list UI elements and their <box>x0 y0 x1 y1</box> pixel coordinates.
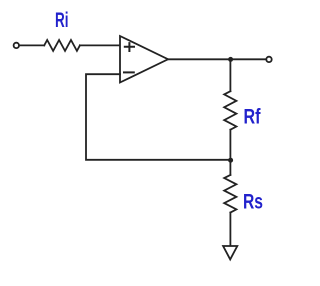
svg-text:Ri: Ri <box>55 8 69 32</box>
svg-text:Rf: Rf <box>244 104 262 128</box>
svg-text:Rs: Rs <box>243 190 263 214</box>
